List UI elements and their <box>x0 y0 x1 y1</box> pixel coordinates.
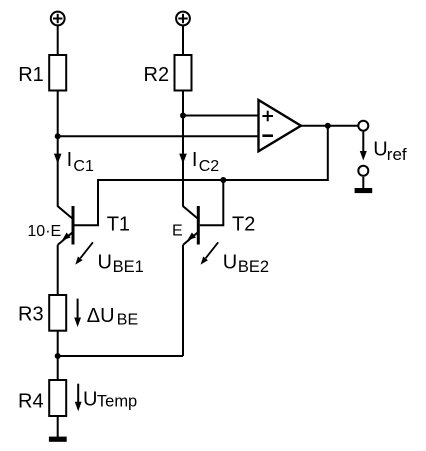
transistor T1 <box>58 206 73 245</box>
svg-text:T1: T1 <box>107 213 130 235</box>
svg-text:I: I <box>67 149 73 171</box>
wire terminal to ground <box>362 177 364 189</box>
power supply terminal V+ left <box>51 12 65 26</box>
svg-text:R1: R1 <box>18 64 44 86</box>
wire R2 to T2 collector <box>182 91 184 207</box>
wire bridge node to T2 emitter <box>58 355 183 357</box>
resistor R3 <box>49 295 66 331</box>
op-amp minus input marker <box>262 134 273 137</box>
wire T1 emitter to R3 <box>57 245 59 295</box>
junction T2 base node <box>220 177 226 183</box>
svg-text:I: I <box>192 149 198 171</box>
svg-text:ΔU: ΔU <box>87 305 115 327</box>
svg-text:ref: ref <box>387 145 407 164</box>
arrow Uref voltage <box>362 132 364 152</box>
svg-text:R2: R2 <box>144 64 170 86</box>
arrow T2 emitter <box>187 233 196 241</box>
svg-text:C1: C1 <box>73 158 94 175</box>
op-amp plus input marker <box>262 111 273 122</box>
wire op-amp output <box>301 125 358 127</box>
resistor R4 <box>49 380 66 416</box>
ground at Uref <box>355 188 373 193</box>
wire R4 to ground <box>57 416 59 437</box>
svg-text:Temp: Temp <box>97 393 137 411</box>
arrow current IC2 <box>179 154 187 164</box>
wire node V2 to op-amp non-inverting input <box>183 115 259 117</box>
wire T2 base tap <box>200 180 224 225</box>
wire V+ right to R2 <box>182 25 184 55</box>
svg-text:E: E <box>172 222 183 239</box>
junction node V1 <box>55 133 61 139</box>
transistor T2 <box>183 206 198 245</box>
wire node V1 to op-amp inverting input <box>58 135 259 137</box>
svg-text:T2: T2 <box>232 213 255 235</box>
svg-text:U: U <box>223 251 237 273</box>
svg-text:BE1: BE1 <box>113 258 144 276</box>
terminal Uref ground side <box>358 166 368 176</box>
wire feedback from output to T1 base <box>75 126 328 226</box>
arrow voltage UBE1 <box>80 242 93 258</box>
wire R1 to T1 collector <box>57 91 59 207</box>
wire V+ left to R1 <box>57 25 59 55</box>
svg-text:10·E: 10·E <box>27 223 61 240</box>
ground bottom <box>49 437 67 442</box>
svg-text:R3: R3 <box>18 303 44 325</box>
resistor R1 <box>49 55 66 91</box>
resistor R2 <box>175 55 192 91</box>
junction output node <box>325 123 331 129</box>
power supply terminal V+ right <box>176 12 190 26</box>
svg-text:C2: C2 <box>199 158 220 175</box>
arrow current IC1 <box>54 154 62 164</box>
arrow voltage UBE2 <box>206 242 219 258</box>
wire T2 emitter down <box>182 245 184 356</box>
wire R3 to R4 <box>57 331 59 380</box>
svg-text:U: U <box>373 139 387 161</box>
arrow voltage dUBE <box>77 299 79 318</box>
op-amp U1 <box>259 100 302 151</box>
svg-text:BE: BE <box>117 312 138 329</box>
svg-text:R4: R4 <box>18 391 44 413</box>
junction node V2 <box>180 113 186 119</box>
junction R3 R4 node <box>55 353 61 359</box>
svg-text:U: U <box>83 389 97 411</box>
svg-text:U: U <box>98 251 112 273</box>
svg-text:BE2: BE2 <box>238 258 269 276</box>
arrow voltage UTemp <box>77 384 79 402</box>
arrow T1 emitter <box>62 233 71 241</box>
terminal Uref output <box>358 121 368 131</box>
